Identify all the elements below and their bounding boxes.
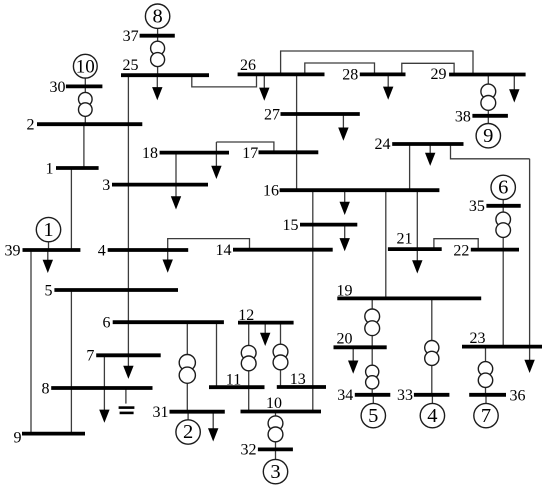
generator G5	[361, 403, 385, 427]
svg-text:6: 6	[498, 177, 508, 199]
wire 5-8-9	[70, 290, 72, 434]
wire 6-T-31	[186, 322, 188, 412]
svg-text:1: 1	[46, 160, 54, 177]
svg-text:38: 38	[455, 108, 471, 125]
svg-text:9: 9	[14, 429, 22, 446]
bus 31	[170, 410, 225, 414]
wire 39-9	[30, 250, 32, 434]
bus 14	[233, 248, 333, 252]
bus 34	[355, 393, 391, 397]
shunt capacitor at bus 8	[119, 408, 135, 413]
svg-text:10: 10	[76, 56, 95, 77]
wire 24-23 step	[451, 144, 530, 159]
bus 29	[449, 73, 525, 77]
wire 38-G9 stub	[487, 116, 489, 124]
wire 36-G7 stub	[485, 395, 487, 404]
svg-text:33: 33	[397, 387, 413, 404]
wire 16-19	[385, 190, 387, 298]
generator G4	[420, 403, 444, 427]
svg-text:3: 3	[270, 461, 280, 483]
bus 1	[56, 166, 99, 170]
load arrow bus 3 via line 18-3	[171, 153, 181, 210]
transformer T30-2	[79, 92, 93, 116]
load arrow bus 31	[208, 412, 218, 442]
svg-text:5: 5	[368, 405, 378, 427]
svg-text:21: 21	[397, 231, 413, 248]
load arrow bus 12	[260, 323, 270, 346]
wire 29-T-38	[487, 75, 489, 116]
wire G1-39 stub	[48, 242, 50, 250]
bus 16	[280, 188, 440, 192]
svg-text:23: 23	[470, 330, 486, 347]
svg-text:12: 12	[238, 307, 254, 324]
wire 26-28 step	[305, 63, 375, 74]
wire 1-39	[70, 168, 72, 250]
svg-text:18: 18	[142, 145, 158, 162]
transformer T6-31	[179, 355, 195, 384]
svg-text:6: 6	[103, 315, 111, 332]
transformer T12-13	[273, 344, 288, 370]
bus 25	[121, 73, 209, 77]
bus 18	[160, 151, 229, 155]
wire 26-29 top link	[281, 51, 473, 75]
transformer T37-25	[151, 41, 165, 66]
svg-text:35: 35	[469, 198, 485, 215]
bus 13	[277, 385, 326, 389]
svg-text:8: 8	[152, 5, 162, 27]
bus 11	[209, 385, 265, 389]
generator G9	[476, 124, 500, 148]
wire 19-T-33	[431, 298, 433, 394]
svg-text:34: 34	[337, 387, 353, 404]
bus 15	[300, 223, 357, 227]
wire G10-30-T-2 chain	[84, 78, 86, 124]
bus 3	[112, 183, 208, 187]
bus 36	[469, 393, 506, 397]
bus 23	[462, 345, 542, 349]
svg-text:9: 9	[483, 125, 493, 147]
wire 11-10	[248, 387, 250, 411]
svg-text:22: 22	[453, 243, 469, 260]
wire 25-2-3-4-5-6 chain	[127, 75, 129, 355]
svg-text:3: 3	[102, 177, 110, 194]
svg-text:11: 11	[226, 371, 241, 388]
svg-text:4: 4	[98, 242, 106, 259]
load arrow bus 25	[152, 75, 162, 100]
wire 4-14 step	[168, 239, 250, 250]
load arrow bus 8 via line 7-8	[99, 355, 109, 423]
wire 32-G3 stub	[275, 449, 277, 459]
svg-text:32: 32	[241, 442, 257, 459]
bus 35	[486, 204, 520, 208]
load arrow bus 4	[163, 250, 173, 273]
generator G3	[263, 459, 287, 483]
svg-text:26: 26	[240, 57, 256, 74]
load arrow bus 16	[340, 190, 350, 215]
svg-text:2: 2	[27, 117, 35, 134]
bus 2	[37, 122, 142, 126]
svg-text:37: 37	[123, 28, 139, 45]
wire 26-27-17-16 chain	[296, 74, 298, 190]
bus 9	[22, 432, 85, 436]
bus 5	[54, 288, 178, 292]
generator G2	[176, 420, 200, 444]
svg-text:29: 29	[431, 66, 447, 83]
load arrow bus 15	[340, 225, 350, 252]
bus 30	[66, 85, 103, 89]
svg-text:24: 24	[375, 136, 391, 153]
load arrow bus 21 via line 16-21	[412, 190, 422, 273]
load arrow bus 27	[338, 114, 348, 141]
bus 19	[337, 296, 481, 300]
wire capacitor stub at bus 8	[125, 388, 127, 404]
transformer T23-36	[478, 362, 492, 388]
svg-text:7: 7	[86, 348, 94, 365]
transformer T19-33	[425, 341, 439, 366]
bus 39	[23, 248, 81, 252]
load arrow bus 23 via line 24-23	[524, 159, 534, 373]
wire 28-29 step	[402, 63, 454, 74]
wire 16-24	[409, 144, 411, 190]
svg-text:7: 7	[481, 405, 491, 427]
transformer T19-20	[365, 309, 380, 336]
bus 7	[96, 353, 161, 357]
svg-text:1: 1	[43, 219, 53, 241]
load arrow bus 26	[259, 74, 269, 100]
wire G8-37-T-25 chain	[157, 28, 159, 75]
svg-text:31: 31	[153, 404, 169, 421]
bus 33	[414, 393, 450, 397]
load arrow bus 24	[425, 144, 435, 166]
svg-text:17: 17	[242, 145, 258, 162]
svg-text:25: 25	[123, 57, 139, 74]
wire 10-T-32	[275, 412, 277, 450]
bus 6	[113, 320, 224, 324]
transformer T10-32	[268, 416, 283, 442]
generator G6	[491, 175, 515, 199]
bus 12	[238, 321, 294, 325]
svg-text:8: 8	[42, 380, 50, 397]
bus 28	[360, 73, 406, 77]
bus 4	[108, 248, 189, 252]
wire 16-15-14-13-10 chain	[312, 190, 314, 411]
transformer T35-22	[496, 212, 511, 237]
load arrow bus 29	[509, 75, 519, 103]
svg-text:14: 14	[216, 242, 232, 259]
svg-text:4: 4	[427, 405, 437, 427]
svg-text:39: 39	[5, 242, 21, 259]
bus 27	[281, 112, 360, 116]
wire 20-T-34	[371, 347, 373, 395]
transformer T20-34	[366, 365, 379, 389]
generator G1	[36, 217, 60, 241]
wire 23-T-36	[485, 347, 487, 395]
wire 12-T-13	[280, 323, 282, 387]
transformer T29-38	[481, 84, 496, 110]
wire 2-1	[83, 124, 85, 168]
bus 22	[471, 248, 519, 252]
load arrow bus 28	[383, 74, 393, 99]
wire 34-G5 stub	[372, 395, 374, 404]
wire G6-35-T-22-23 chain	[502, 199, 504, 346]
bus 24	[392, 142, 463, 146]
svg-text:27: 27	[264, 106, 280, 123]
wire 18-17 step	[216, 142, 274, 153]
load arrow bus 7 via chain	[123, 355, 133, 379]
load arrow bus 20	[348, 347, 358, 373]
svg-text:30: 30	[50, 79, 66, 96]
wire 33-G4 stub	[431, 395, 433, 404]
generator G7	[474, 403, 498, 427]
bus 26	[238, 73, 325, 77]
wire 6-11	[216, 322, 218, 387]
svg-text:36: 36	[510, 388, 526, 405]
bus 8	[51, 386, 152, 390]
svg-text:16: 16	[263, 183, 279, 200]
svg-text:19: 19	[337, 282, 353, 299]
bus 20	[334, 345, 387, 349]
generator G10	[73, 54, 97, 78]
bus 10	[241, 410, 322, 414]
svg-text:13: 13	[290, 371, 306, 388]
svg-text:20: 20	[337, 331, 353, 348]
transformer T12-11	[241, 345, 256, 370]
wire 21-22 step	[434, 239, 478, 250]
wire 19-T-20	[371, 298, 373, 347]
generator G8	[145, 4, 169, 28]
wire 31-G2 stub	[187, 412, 189, 420]
svg-text:10: 10	[266, 395, 282, 412]
bus 37	[140, 34, 175, 38]
bus 21	[388, 247, 442, 251]
wire 12-T-11	[248, 323, 250, 388]
svg-text:5: 5	[45, 282, 53, 299]
svg-text:28: 28	[342, 67, 358, 84]
bus 17	[259, 150, 319, 154]
load arrow bus 39	[43, 250, 53, 273]
load arrow bus 18	[211, 142, 221, 179]
wire 25-26 step	[192, 74, 257, 87]
bus 32	[258, 447, 293, 451]
svg-text:2: 2	[183, 421, 193, 443]
svg-text:15: 15	[283, 217, 299, 234]
bus 38	[472, 114, 508, 118]
